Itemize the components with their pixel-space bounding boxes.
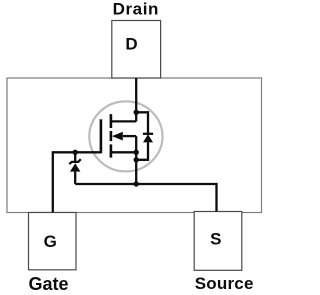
terminal box S [194,212,242,271]
node diode anode junction [134,157,139,162]
wire drain vertical [135,78,137,121]
terminal box G [29,213,77,270]
node source stub junction [134,150,139,155]
mosfet Q1 channel segment top [110,114,113,128]
svg-text:D: D [125,34,137,53]
svg-text:S: S [210,229,221,248]
body diode D1 triangle [143,134,153,142]
wire drain stub [111,120,136,122]
node gate-zener junction [73,150,78,155]
node drain junction [134,110,139,115]
wire body lead [123,135,136,137]
body diode D1 anode lead [136,142,148,159]
body diode D1 top lead [136,112,148,134]
svg-text:Gate: Gate [28,274,68,294]
zener Z1 anode lead [74,172,76,184]
zener Z1 cathode lead [74,152,76,162]
transistor body circle [89,101,162,171]
mosfet Q1 channel segment middle [110,131,113,141]
svg-text:G: G [44,232,57,251]
wire body-source vertical [135,136,137,184]
wire gate lead [53,152,101,212]
node source rail junction [134,181,139,186]
wire source stub [111,151,136,153]
mosfet Q1 gate bar [100,119,103,153]
terminal box D [112,21,161,79]
mosfet Q1 channel segment bottom [110,144,113,157]
mosfet Q1 body arrow [112,132,123,141]
svg-text:Drain: Drain [113,0,159,19]
zener Z1 cathode bar [69,159,81,164]
body diode D1 cathode bar [143,133,153,135]
zener Z1 triangle [70,163,80,171]
svg-text:Source: Source [195,274,254,293]
wire source rail [75,184,216,212]
package outline [7,78,262,213]
